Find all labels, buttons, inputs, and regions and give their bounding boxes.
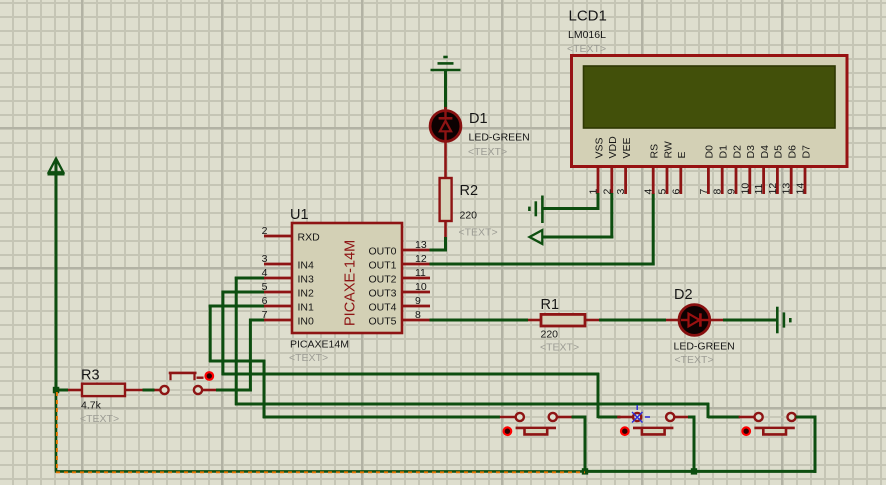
svg-text:RW: RW: [662, 141, 674, 158]
svg-text:VEE: VEE: [621, 137, 633, 158]
svg-text:220: 220: [541, 329, 559, 341]
svg-text:R2: R2: [460, 183, 479, 199]
push button SW1 (beside R3): [155, 372, 214, 394]
ground symbol (right of D2): [777, 307, 790, 334]
LCD pin 3 stub: [624, 166, 627, 194]
wire: dashed return (vertical): [55, 390, 59, 471]
svg-text:D6: D6: [787, 145, 799, 159]
svg-text:OUT4: OUT4: [368, 302, 396, 314]
LCD pin 5 stub: [666, 166, 669, 194]
input terminal arrow (points left): [530, 230, 543, 244]
LCD pin 12 stub: [776, 166, 779, 194]
svg-text:10: 10: [415, 281, 427, 293]
svg-text:IN2: IN2: [298, 288, 315, 300]
cursor cross marker (blue) at SW3 left pin: [632, 405, 650, 423]
led D2 LED-GREEN: [666, 305, 710, 336]
LCD pin 7 stub: [707, 166, 710, 194]
wire: power arrow stem down to R3 node: [55, 161, 58, 391]
svg-text:5: 5: [262, 281, 268, 293]
D2 right lead: [709, 319, 723, 322]
wire: LCD pin1 VSS to ground: [542, 193, 600, 210]
svg-text:D1: D1: [718, 145, 730, 159]
svg-text:<TEXT>: <TEXT>: [459, 227, 498, 239]
svg-text:6: 6: [670, 189, 682, 195]
wire: LCD pin2 VDD to input terminal: [543, 193, 614, 238]
push button SW3 (bottom middle): [617, 413, 690, 435]
svg-text:LED-GREEN: LED-GREEN: [469, 132, 530, 144]
U1 pin 5 stub: [264, 291, 292, 294]
svg-text:13: 13: [415, 239, 427, 251]
U1 pin 2 stub: [264, 235, 292, 238]
svg-text:11: 11: [753, 183, 765, 194]
junction at SW3/rail: [691, 468, 697, 474]
LCD pin 2 stub: [610, 166, 613, 194]
U1 pin 10 stub: [402, 291, 430, 294]
svg-text:6: 6: [262, 295, 268, 307]
svg-text:8: 8: [415, 309, 421, 321]
svg-text:5: 5: [657, 189, 669, 195]
svg-text:LM016L: LM016L: [568, 29, 606, 41]
LCD pin 9 stub: [735, 166, 738, 194]
svg-text:PICAXE-14M: PICAXE-14M: [343, 240, 359, 326]
svg-text:D5: D5: [773, 145, 785, 159]
wire net IN1: U1 pin6 to button SW2: [209, 305, 500, 418]
LCD pin 14 stub: [804, 166, 807, 194]
svg-text:4: 4: [643, 189, 655, 195]
svg-text:VDD: VDD: [607, 136, 619, 159]
wire: D1 to R2: [444, 141, 447, 178]
svg-text:11: 11: [415, 267, 426, 279]
svg-text:<TEXT>: <TEXT>: [80, 413, 119, 425]
svg-text:RS: RS: [649, 144, 661, 159]
ground symbol (above D1): [431, 57, 461, 70]
wire: D2 to right ground: [723, 319, 778, 322]
push button SW2 (bottom left): [500, 413, 573, 435]
LCD pin 6 stub: [679, 166, 682, 194]
svg-text:<TEXT>: <TEXT>: [675, 354, 714, 366]
lcd screen: [584, 66, 836, 128]
wire: SW3 right to bottom rail: [688, 416, 695, 472]
svg-text:12: 12: [415, 253, 427, 265]
wire: R2 to U1 pin13: [430, 237, 448, 252]
wire net IN3: U1 pin4 to button SW4: [235, 277, 740, 418]
wire net IN2: U1 pin5 to button SW3: [222, 291, 621, 418]
svg-text:9: 9: [415, 295, 421, 307]
U1 pin 12 stub: [402, 263, 430, 266]
svg-text:14: 14: [795, 183, 807, 195]
resistor R2: [440, 178, 452, 239]
svg-text:IN4: IN4: [298, 260, 315, 272]
svg-text:U1: U1: [290, 207, 309, 223]
svg-text:2: 2: [262, 225, 268, 237]
svg-text:RXD: RXD: [298, 232, 321, 244]
svg-text:OUT1: OUT1: [368, 260, 396, 272]
svg-text:E: E: [676, 151, 688, 158]
svg-text:D1: D1: [469, 111, 488, 127]
U1 pin 13 stub: [402, 249, 430, 252]
svg-text:D4: D4: [759, 145, 771, 159]
LCD pin 1 stub: [597, 166, 600, 194]
wire: U1 pin12 to LCD pin RS: [430, 193, 655, 266]
resistor R1: [528, 314, 599, 326]
svg-text:OUT2: OUT2: [368, 274, 396, 286]
U1 pin 4 stub: [264, 277, 292, 280]
ground symbol (left of LCD, VSS): [529, 196, 542, 224]
wire: dashed return (horizontal): [55, 470, 585, 473]
U1 pin 8 stub: [402, 319, 430, 322]
svg-text:OUT5: OUT5: [368, 316, 396, 328]
node A junction at R3 left: [53, 387, 60, 394]
svg-text:D2: D2: [731, 145, 743, 159]
resistor R3: [68, 384, 143, 396]
svg-text:7: 7: [262, 309, 268, 321]
svg-text:12: 12: [767, 183, 779, 195]
svg-text:220: 220: [460, 210, 478, 222]
LCD pin 10 stub: [748, 166, 751, 194]
svg-text:<TEXT>: <TEXT>: [567, 43, 606, 55]
U1 pin 7 stub: [264, 319, 292, 322]
svg-text:D2: D2: [674, 287, 693, 303]
svg-text:4: 4: [262, 267, 268, 279]
svg-text:13: 13: [781, 183, 793, 195]
svg-text:<TEXT>: <TEXT>: [289, 352, 328, 364]
svg-text:9: 9: [726, 189, 738, 195]
lcd LCD1 LM016L body: [572, 56, 848, 167]
svg-text:10: 10: [739, 183, 751, 195]
svg-text:R3: R3: [81, 368, 100, 384]
LCD pin 8 stub: [721, 166, 724, 194]
U1 pin 6 stub: [264, 305, 292, 308]
svg-text:LCD1: LCD1: [569, 8, 607, 25]
svg-text:3: 3: [262, 253, 268, 265]
wire net IN0: switch to U1 pin7: [216, 319, 265, 392]
op: U1 PICAXE-14M body: [292, 223, 402, 333]
svg-text:R1: R1: [541, 297, 560, 313]
svg-text:3: 3: [615, 189, 627, 195]
svg-text:PICAXE14M: PICAXE14M: [290, 339, 349, 351]
wire: SW2 right to bottom rail: [572, 416, 587, 472]
svg-text:7: 7: [698, 189, 710, 195]
junction at SW2/rail: [582, 468, 588, 474]
LCD pin 13 stub: [790, 166, 793, 194]
svg-text:<TEXT>: <TEXT>: [468, 146, 507, 158]
push button SW4 (bottom right): [739, 413, 812, 435]
svg-text:<TEXT>: <TEXT>: [540, 342, 579, 354]
U1 pin 3 stub: [264, 263, 292, 266]
svg-text:IN1: IN1: [298, 302, 315, 314]
svg-text:4.7k: 4.7k: [81, 400, 102, 412]
svg-text:D3: D3: [745, 145, 757, 159]
wire: R3 to switch: [143, 389, 155, 392]
wire: ground to D1: [444, 70, 447, 109]
svg-text:IN0: IN0: [298, 316, 315, 328]
wire: U1 pin8 to R1: [430, 319, 529, 322]
power terminal arrow (top-left): [48, 159, 65, 175]
svg-text:8: 8: [712, 189, 724, 195]
U1 pin 9 stub: [402, 305, 430, 308]
svg-text:LED-GREEN: LED-GREEN: [674, 341, 735, 353]
U1 pin 11 stub: [402, 277, 430, 280]
wire: bottom rail: [585, 470, 816, 473]
wire: switch right stub: [202, 389, 216, 392]
wire: node to R3 left lead: [55, 389, 69, 392]
wire: R1 to D2: [599, 319, 666, 322]
wire: SW4 right to bottom rail: [796, 416, 817, 473]
svg-text:IN3: IN3: [298, 274, 315, 286]
led D1 LED-GREEN: [430, 107, 461, 143]
svg-text:OUT0: OUT0: [368, 246, 396, 258]
svg-text:OUT3: OUT3: [368, 288, 396, 300]
svg-text:D0: D0: [704, 145, 716, 159]
LCD pin 11 stub: [762, 166, 765, 194]
svg-text:VSS: VSS: [593, 137, 605, 158]
svg-text:D7: D7: [800, 145, 812, 159]
LCD pin 4 stub: [652, 166, 655, 194]
